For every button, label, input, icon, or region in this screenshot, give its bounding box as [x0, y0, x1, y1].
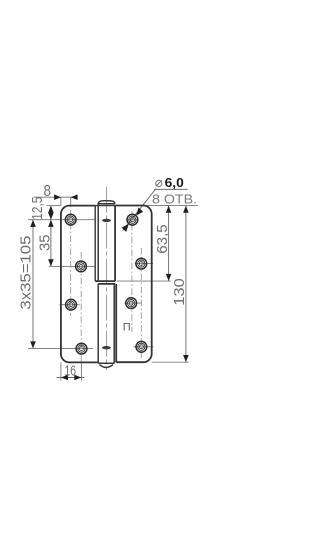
svg-text:12,5: 12,5: [30, 197, 46, 220]
svg-text:3x35=105: 3x35=105: [18, 236, 34, 310]
svg-text:130: 130: [172, 278, 188, 306]
svg-text:16: 16: [65, 363, 77, 379]
svg-text:35: 35: [37, 235, 53, 252]
svg-text:6,0: 6,0: [165, 175, 184, 190]
svg-text:63,5: 63,5: [155, 224, 171, 254]
svg-text:8 ОТВ.: 8 ОТВ.: [152, 192, 197, 207]
svg-text:П: П: [123, 321, 131, 333]
